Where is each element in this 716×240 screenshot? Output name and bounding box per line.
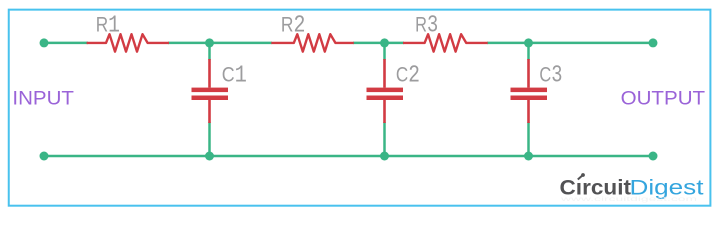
capacitor C3	[511, 59, 548, 123]
svg-text:R1: R1	[96, 13, 120, 40]
wire top net: R1 to node A	[168, 42, 272, 45]
wire C1 vertical green bottom	[208, 122, 211, 156]
svg-text:OUTPUT: OUTPUT	[621, 88, 706, 109]
wire top net: R3 to node C and right terminal	[487, 42, 653, 45]
wire top net: left terminal to R1	[44, 42, 88, 45]
svg-text:C3: C3	[539, 63, 562, 90]
resistor R1	[87, 34, 169, 51]
wire top net: R2 to node B	[353, 42, 404, 45]
node left input terminal bottom	[40, 152, 49, 161]
node C1 ground junction	[205, 152, 214, 161]
capacitor C1	[192, 59, 229, 123]
wire C3 vertical green bottom	[527, 122, 530, 156]
resistor R2	[271, 34, 354, 51]
CircuitDigest logo	[559, 173, 704, 203]
node C3 ground junction	[524, 152, 533, 161]
wire C3 vertical green top	[527, 43, 530, 60]
wire bottom ground net	[44, 155, 653, 158]
node right output terminal bottom	[649, 152, 658, 161]
svg-text:INPUT: INPUT	[12, 88, 74, 109]
svg-text:R3: R3	[415, 13, 438, 40]
node left input terminal top	[40, 38, 49, 47]
resistor R3	[403, 34, 488, 51]
svg-text:www.circuitdigest.com: www.circuitdigest.com	[559, 197, 697, 203]
wire C2 vertical green bottom	[383, 122, 386, 156]
wire C2 vertical green top	[383, 43, 386, 60]
capacitor C2	[367, 59, 404, 123]
svg-text:C1: C1	[222, 63, 247, 90]
wire C1 vertical green top	[208, 43, 211, 60]
node right output terminal top	[649, 38, 658, 47]
svg-text:C2: C2	[396, 63, 420, 90]
svg-text:R2: R2	[281, 13, 306, 40]
node C (R3/C3 junction)	[524, 38, 533, 47]
node B (R2/R3/C2 junction)	[380, 38, 389, 47]
node A (R1/R2/C1 junction)	[205, 38, 214, 47]
node C2 ground junction	[380, 152, 389, 161]
